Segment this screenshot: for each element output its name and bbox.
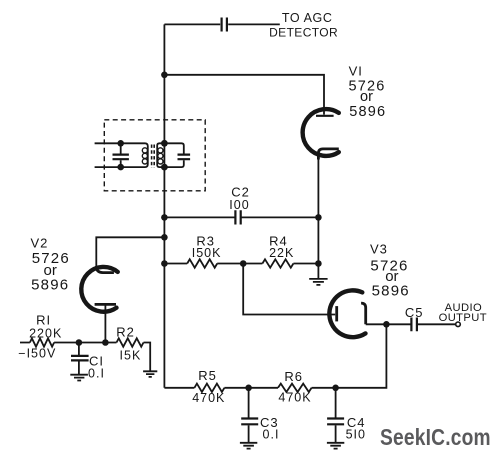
transformer core [152, 145, 155, 169]
inductor T1 primary loops [142, 148, 147, 153]
wire secondary loop and cap leads [157, 143, 184, 167]
svg-text:470K: 470K [278, 391, 311, 405]
svg-text:R2: R2 [116, 324, 135, 339]
svg-text:I5K: I5K [120, 349, 142, 363]
ground below R2 [143, 371, 157, 377]
resistor R4 [262, 259, 293, 267]
svg-text:TO AGC: TO AGC [282, 11, 333, 25]
tube V3 envelope [329, 290, 365, 337]
svg-text:C5: C5 [405, 305, 424, 320]
wire primary top stub and spine [95, 143, 148, 167]
svg-text:DETECTOR: DETECTOR [269, 26, 338, 40]
svg-text:R5: R5 [198, 368, 217, 383]
tube V1 plate bar [316, 115, 334, 117]
tube V1 cathode [318, 149, 338, 160]
svg-text:−I50V: −I50V [18, 346, 56, 360]
resistor R5 [194, 384, 224, 392]
ground below C3 [240, 443, 257, 449]
svg-text:5I0: 5I0 [346, 427, 366, 441]
terminal audio output [456, 322, 461, 327]
svg-text:VI: VI [349, 64, 363, 79]
node primary cap top [117, 140, 124, 147]
tube V2 plate [96, 266, 114, 273]
resistor R2 [117, 338, 144, 346]
node junction top [161, 72, 168, 79]
node C2 right [315, 214, 322, 221]
svg-text:5896: 5896 [31, 276, 69, 293]
svg-text:OUTPUT: OUTPUT [439, 312, 487, 324]
ground below C1 [70, 375, 88, 381]
node R3 left [161, 260, 168, 267]
node R4 right [315, 260, 322, 267]
capacitor C5 [411, 318, 417, 332]
transformer dashed enclosure [104, 120, 205, 191]
svg-text:470K: 470K [192, 391, 225, 405]
capacitor primary tuning [120, 143, 122, 167]
svg-text:I00: I00 [229, 198, 249, 212]
node C3 tap [245, 385, 252, 392]
wire V3 output [366, 323, 456, 325]
wire V2 cathode lead [104, 304, 106, 342]
svg-text:I50K: I50K [192, 246, 222, 260]
resistor R1 [30, 338, 54, 346]
node C1 tap [76, 339, 83, 346]
tube V3 plate [361, 303, 366, 324]
capacitor secondary tuning [178, 155, 191, 160]
wire top AGC line left segment [164, 23, 220, 25]
ground below V1 [309, 279, 327, 285]
wire V1 plate line [164, 75, 324, 115]
svg-text:0.I: 0.I [88, 367, 105, 381]
node C2 left [161, 214, 168, 221]
wire C2 line [164, 216, 318, 218]
svg-text:R6: R6 [284, 369, 303, 384]
svg-text:5896: 5896 [349, 104, 386, 120]
wire V1 cathode lead [317, 158, 319, 279]
svg-text:or: or [360, 89, 373, 105]
svg-text:V2: V2 [30, 235, 48, 250]
node secondary top [161, 140, 168, 147]
node V2 cathode tap [102, 339, 109, 346]
svg-text:0.I: 0.I [263, 427, 280, 441]
tube V2 cathode bar [95, 303, 116, 306]
wire top AGC line right segment [228, 23, 280, 25]
capacitor C3 [248, 388, 250, 443]
node C4 tap [332, 385, 339, 392]
wire V2 plate line [96, 237, 164, 268]
node R3 R4 junction [240, 260, 247, 267]
tube V1 envelope [303, 109, 339, 156]
wire main vertical bus [163, 24, 165, 387]
node V2 plate line [161, 234, 168, 241]
ground below C4 [327, 443, 344, 449]
svg-text:22K: 22K [269, 246, 294, 260]
node V3 output [383, 321, 390, 328]
node primary cap bottom [117, 164, 124, 171]
wire R3 R4 line [164, 263, 318, 265]
watermark SeekIC.com [380, 425, 491, 450]
svg-text:SeekIC.com: SeekIC.com [380, 425, 491, 450]
resistor R6 [278, 384, 312, 392]
capacitor C2 [235, 210, 240, 224]
capacitor C1 [78, 343, 80, 375]
capacitor C4 [335, 388, 337, 443]
tube V2 envelope [81, 267, 117, 312]
resistor R3 [187, 259, 217, 267]
inductor T1 secondary loops [158, 148, 163, 153]
svg-text:V3: V3 [370, 241, 388, 256]
wire R1 R2 line [20, 343, 150, 372]
wire R5 R6 line [164, 324, 386, 388]
tube V3 grid bar [335, 306, 338, 321]
node secondary bottom [161, 164, 168, 171]
capacitor AGC coupling [222, 18, 227, 32]
svg-text:5896: 5896 [372, 283, 410, 300]
wire V3 grid line [243, 264, 335, 315]
svg-text:220K: 220K [29, 326, 62, 340]
